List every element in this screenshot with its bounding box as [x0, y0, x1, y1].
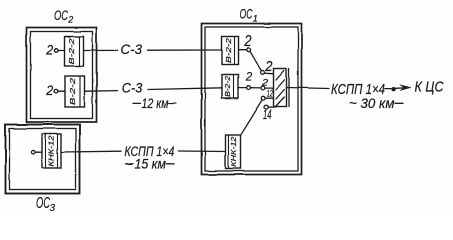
svg-text:ОС: ОС	[54, 8, 68, 23]
svg-text:КНК-12: КНК-12	[49, 135, 56, 166]
svg-text:С-3: С-3	[122, 80, 143, 96]
svg-text:2: 2	[67, 14, 73, 24]
svg-text:С-3: С-3	[121, 41, 143, 57]
svg-text:3: 3	[50, 203, 56, 214]
svg-text:КНК-12: КНК-12	[231, 137, 238, 167]
svg-text:2: 2	[45, 43, 53, 58]
svg-text:2: 2	[264, 58, 273, 75]
svg-text:В-2-2: В-2-2	[68, 77, 77, 105]
svg-text:12: 12	[267, 89, 273, 100]
svg-text:К ЦС: К ЦС	[415, 79, 444, 96]
svg-text:2: 2	[244, 33, 252, 50]
svg-text:ОС: ОС	[36, 195, 50, 212]
svg-text:12 км: 12 км	[142, 95, 169, 111]
svg-text:2: 2	[45, 83, 53, 98]
svg-text:В-2-2: В-2-2	[224, 37, 233, 63]
svg-text:2: 2	[261, 78, 269, 89]
svg-text:15 км: 15 км	[135, 156, 167, 172]
svg-text:2: 2	[245, 72, 253, 84]
svg-text:1: 1	[253, 14, 258, 25]
svg-text:14: 14	[263, 107, 272, 122]
svg-text:В-2-2: В-2-2	[67, 37, 76, 64]
svg-text:ОС: ОС	[240, 6, 254, 22]
svg-text:В-2-2: В-2-2	[223, 75, 232, 97]
svg-text:~ 30 км: ~ 30 км	[349, 95, 395, 111]
